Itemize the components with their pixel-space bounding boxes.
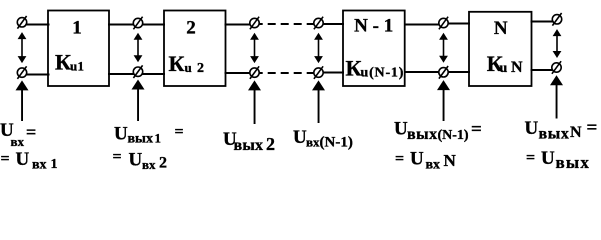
svg-text:вых: вых bbox=[128, 132, 154, 147]
svg-text:вых: вых bbox=[407, 126, 438, 143]
svg-text:К: К bbox=[169, 51, 185, 76]
svg-text:2: 2 bbox=[186, 18, 196, 39]
block 2 (stage 2) bbox=[164, 11, 226, 87]
block 1 (stage 1) bbox=[48, 11, 109, 87]
svg-text:2: 2 bbox=[266, 134, 275, 154]
svg-text:вх: вх bbox=[11, 134, 25, 149]
svg-text:вх: вх bbox=[32, 158, 47, 173]
svg-text:(N-1): (N-1) bbox=[438, 128, 469, 143]
double arrow node 2 bbox=[134, 33, 143, 62]
svg-text:вх: вх bbox=[306, 135, 320, 150]
up arrow with stem, node 3 bbox=[248, 80, 261, 124]
terminal circle top, node 6 bbox=[552, 15, 561, 24]
label: gain Ku1 bbox=[55, 50, 84, 75]
label: Uвх = Uвх1 line 1 bbox=[0, 120, 36, 149]
wire: block N bottom out to node 6 bbox=[531, 69, 553, 71]
node column 2 : between block 1 and 2 bbox=[133, 17, 142, 78]
label: UвыхN = Uвых line 2 bbox=[526, 148, 590, 172]
svg-text:=: = bbox=[175, 124, 184, 141]
terminal circle bottom, node 3 bbox=[250, 68, 259, 77]
terminal circle bottom, node 1 bbox=[17, 68, 26, 77]
svg-text:N: N bbox=[494, 18, 508, 39]
svg-text:N: N bbox=[570, 124, 582, 141]
label: Uвых1 = Uвх2 line 2 bbox=[113, 149, 168, 173]
svg-text:=: = bbox=[1, 151, 10, 168]
svg-text:U: U bbox=[16, 149, 30, 170]
label: Uвых2 bbox=[223, 129, 275, 154]
svg-text:вх: вх bbox=[142, 157, 156, 172]
svg-text:u: u bbox=[70, 59, 77, 74]
wire: block 1 top out to node 2 bbox=[108, 24, 134, 26]
double arrow node 3 bbox=[250, 33, 259, 63]
svg-text:U: U bbox=[293, 127, 307, 148]
svg-text:=: = bbox=[26, 122, 36, 142]
svg-text:N: N bbox=[444, 151, 457, 170]
wire: block 1 bottom out to node 2 bbox=[108, 73, 134, 75]
wire: node 4 top to block N-1 bbox=[323, 23, 344, 25]
wire: node 2 bottom to block 2 bbox=[142, 73, 165, 75]
svg-text:U: U bbox=[129, 150, 143, 171]
label: Uвых(N-1) = UвхN line 1 bbox=[394, 119, 482, 144]
wire: block 2 bottom out to node 3 bbox=[225, 72, 251, 74]
svg-text:U: U bbox=[410, 149, 424, 170]
label: Uвх(N-1) bbox=[293, 127, 353, 151]
terminal circle top, node 4 bbox=[314, 18, 323, 27]
wire: block 2 top out to node 3 bbox=[225, 24, 251, 26]
wire: dashed continuation bottom bbox=[259, 72, 315, 74]
svg-text:вых: вых bbox=[556, 153, 591, 172]
label: Uвых1 = Uвх2 line 1 bbox=[114, 124, 184, 147]
svg-text:2: 2 bbox=[159, 155, 167, 172]
double arrow node 5 bbox=[439, 33, 448, 63]
svg-text:u(N-1): u(N-1) bbox=[361, 66, 405, 81]
terminal circle top, node 3 bbox=[250, 18, 259, 27]
label: gain KuN bbox=[487, 51, 523, 76]
terminal circle top, node 2 bbox=[133, 18, 142, 27]
svg-text:1: 1 bbox=[72, 18, 82, 39]
wire: node 5 bottom to block N bbox=[448, 71, 470, 73]
wire: node 5 top to block N bbox=[448, 23, 470, 25]
terminal circle top, node 5 bbox=[439, 18, 448, 27]
double arrow node 1 bbox=[18, 32, 27, 63]
svg-text:К: К bbox=[346, 56, 362, 81]
svg-text:вых: вых bbox=[539, 126, 570, 143]
label: UвыхN = Uвых line 1 bbox=[525, 118, 598, 143]
svg-text:N - 1: N - 1 bbox=[354, 16, 393, 37]
svg-text:u: u bbox=[185, 60, 192, 75]
up arrow with stem, node 6 bbox=[550, 75, 563, 118]
svg-text:N: N bbox=[511, 59, 523, 76]
up arrow with stem, node 5 bbox=[437, 80, 450, 121]
svg-text:вых: вых bbox=[234, 137, 264, 154]
wire: input top to block 1 bbox=[27, 24, 50, 26]
svg-text:U: U bbox=[525, 118, 539, 139]
wire: node 4 bottom to block N-1 bbox=[323, 72, 344, 74]
svg-text:вх: вх bbox=[426, 158, 441, 173]
wire: dashed continuation top bbox=[259, 23, 315, 25]
wire: block N top out to node 6 bbox=[531, 21, 553, 23]
label: gain Ku2 bbox=[169, 51, 205, 76]
terminal circle bottom, node 2 bbox=[133, 67, 142, 76]
node column 5 : between block N-1 and N bbox=[439, 17, 448, 79]
svg-text:=: = bbox=[113, 149, 122, 166]
terminal circle bottom, node 4 bbox=[314, 68, 323, 77]
svg-text:=: = bbox=[526, 149, 535, 166]
svg-text:U: U bbox=[114, 124, 128, 145]
svg-text:=: = bbox=[471, 119, 482, 140]
node column 1 : input terminals bbox=[17, 16, 26, 79]
svg-text:U: U bbox=[541, 148, 555, 169]
wire: input bottom to block 1 bbox=[27, 74, 50, 76]
node column 6 : output terminals bbox=[552, 13, 562, 74]
label: Uвых(N-1) = UвхN line 2 bbox=[395, 149, 457, 173]
svg-text:2: 2 bbox=[197, 61, 204, 76]
label: Uвх = Uвх1 line 2 bbox=[1, 149, 58, 173]
wire: block N-1 top out to node 5 bbox=[404, 24, 439, 26]
svg-text:1: 1 bbox=[78, 59, 85, 74]
svg-text:1: 1 bbox=[51, 157, 58, 172]
up arrow with stem, node 2 bbox=[132, 80, 145, 122]
block N-1 (stage N-1) bbox=[343, 11, 405, 87]
label: gain Ku(N-1) bbox=[346, 56, 405, 81]
up arrow with stem, node 4 bbox=[312, 80, 325, 123]
terminal circle bottom, node 5 bbox=[439, 68, 448, 77]
terminal circle bottom, node 6 bbox=[552, 63, 561, 72]
svg-text:u: u bbox=[500, 61, 508, 76]
node column 4 : input of block N-1 bbox=[314, 17, 323, 79]
svg-text:U: U bbox=[394, 119, 408, 140]
up arrow with stem, node 1 bbox=[16, 80, 29, 121]
svg-text:=: = bbox=[587, 118, 598, 139]
node column 3 : output of block 2 bbox=[250, 17, 259, 79]
svg-text:1: 1 bbox=[155, 131, 162, 146]
block N (stage N) bbox=[469, 12, 532, 86]
terminal circle top, node 1 bbox=[17, 18, 26, 27]
svg-text:(N-1): (N-1) bbox=[320, 135, 353, 151]
double arrow node 4 bbox=[314, 33, 323, 63]
double arrow node 6 bbox=[553, 29, 562, 58]
svg-text:К: К bbox=[55, 50, 71, 75]
wire: node 2 top to block 2 bbox=[142, 24, 165, 26]
wire: block N-1 bottom out to node 5 bbox=[404, 71, 439, 73]
svg-text:=: = bbox=[395, 150, 404, 167]
